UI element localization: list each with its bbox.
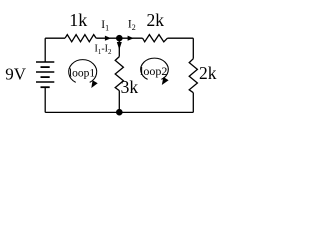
wire middle branch upper (118, 38, 120, 56)
resistor R1 1k zigzag (65, 35, 96, 42)
svg-text:9V: 9V (5, 65, 27, 84)
resistor R2 2k top zigzag (143, 35, 168, 42)
svg-text:2k: 2k (199, 63, 217, 83)
wire right branch lower (192, 93, 194, 113)
svg-text:1k: 1k (69, 10, 87, 30)
battery B1 9V plates (36, 62, 54, 87)
loop1 arrow arc (69, 60, 97, 83)
loop1 arrowhead (91, 80, 97, 88)
resistor R3 2k right zigzag (189, 59, 197, 93)
svg-text:loop2: loop2 (140, 64, 167, 78)
svg-text:3k: 3k (121, 77, 139, 97)
loop2 arrow arc (141, 58, 169, 79)
resistor R4 3k middle zigzag (115, 57, 123, 91)
wire top rail left segment (45, 37, 65, 39)
arrow I1-I2 down on middle branch (117, 42, 122, 50)
svg-text:loop1: loop1 (69, 67, 95, 79)
wire right branch upper (192, 38, 194, 59)
node A top junction dot (116, 35, 123, 42)
wire left branch upper (44, 38, 46, 62)
loop2 arrowhead (162, 77, 169, 85)
node B bottom junction dot (116, 109, 123, 116)
wire bottom rail (45, 111, 193, 113)
wire top rail right segment (167, 37, 193, 39)
wire left branch lower (44, 87, 46, 112)
arrow I2 on top wire (128, 36, 134, 41)
wire top rail middle segment (96, 37, 142, 39)
arrow I1 on top wire (105, 36, 111, 41)
wire middle branch lower (118, 91, 120, 113)
svg-text:2k: 2k (146, 10, 164, 30)
